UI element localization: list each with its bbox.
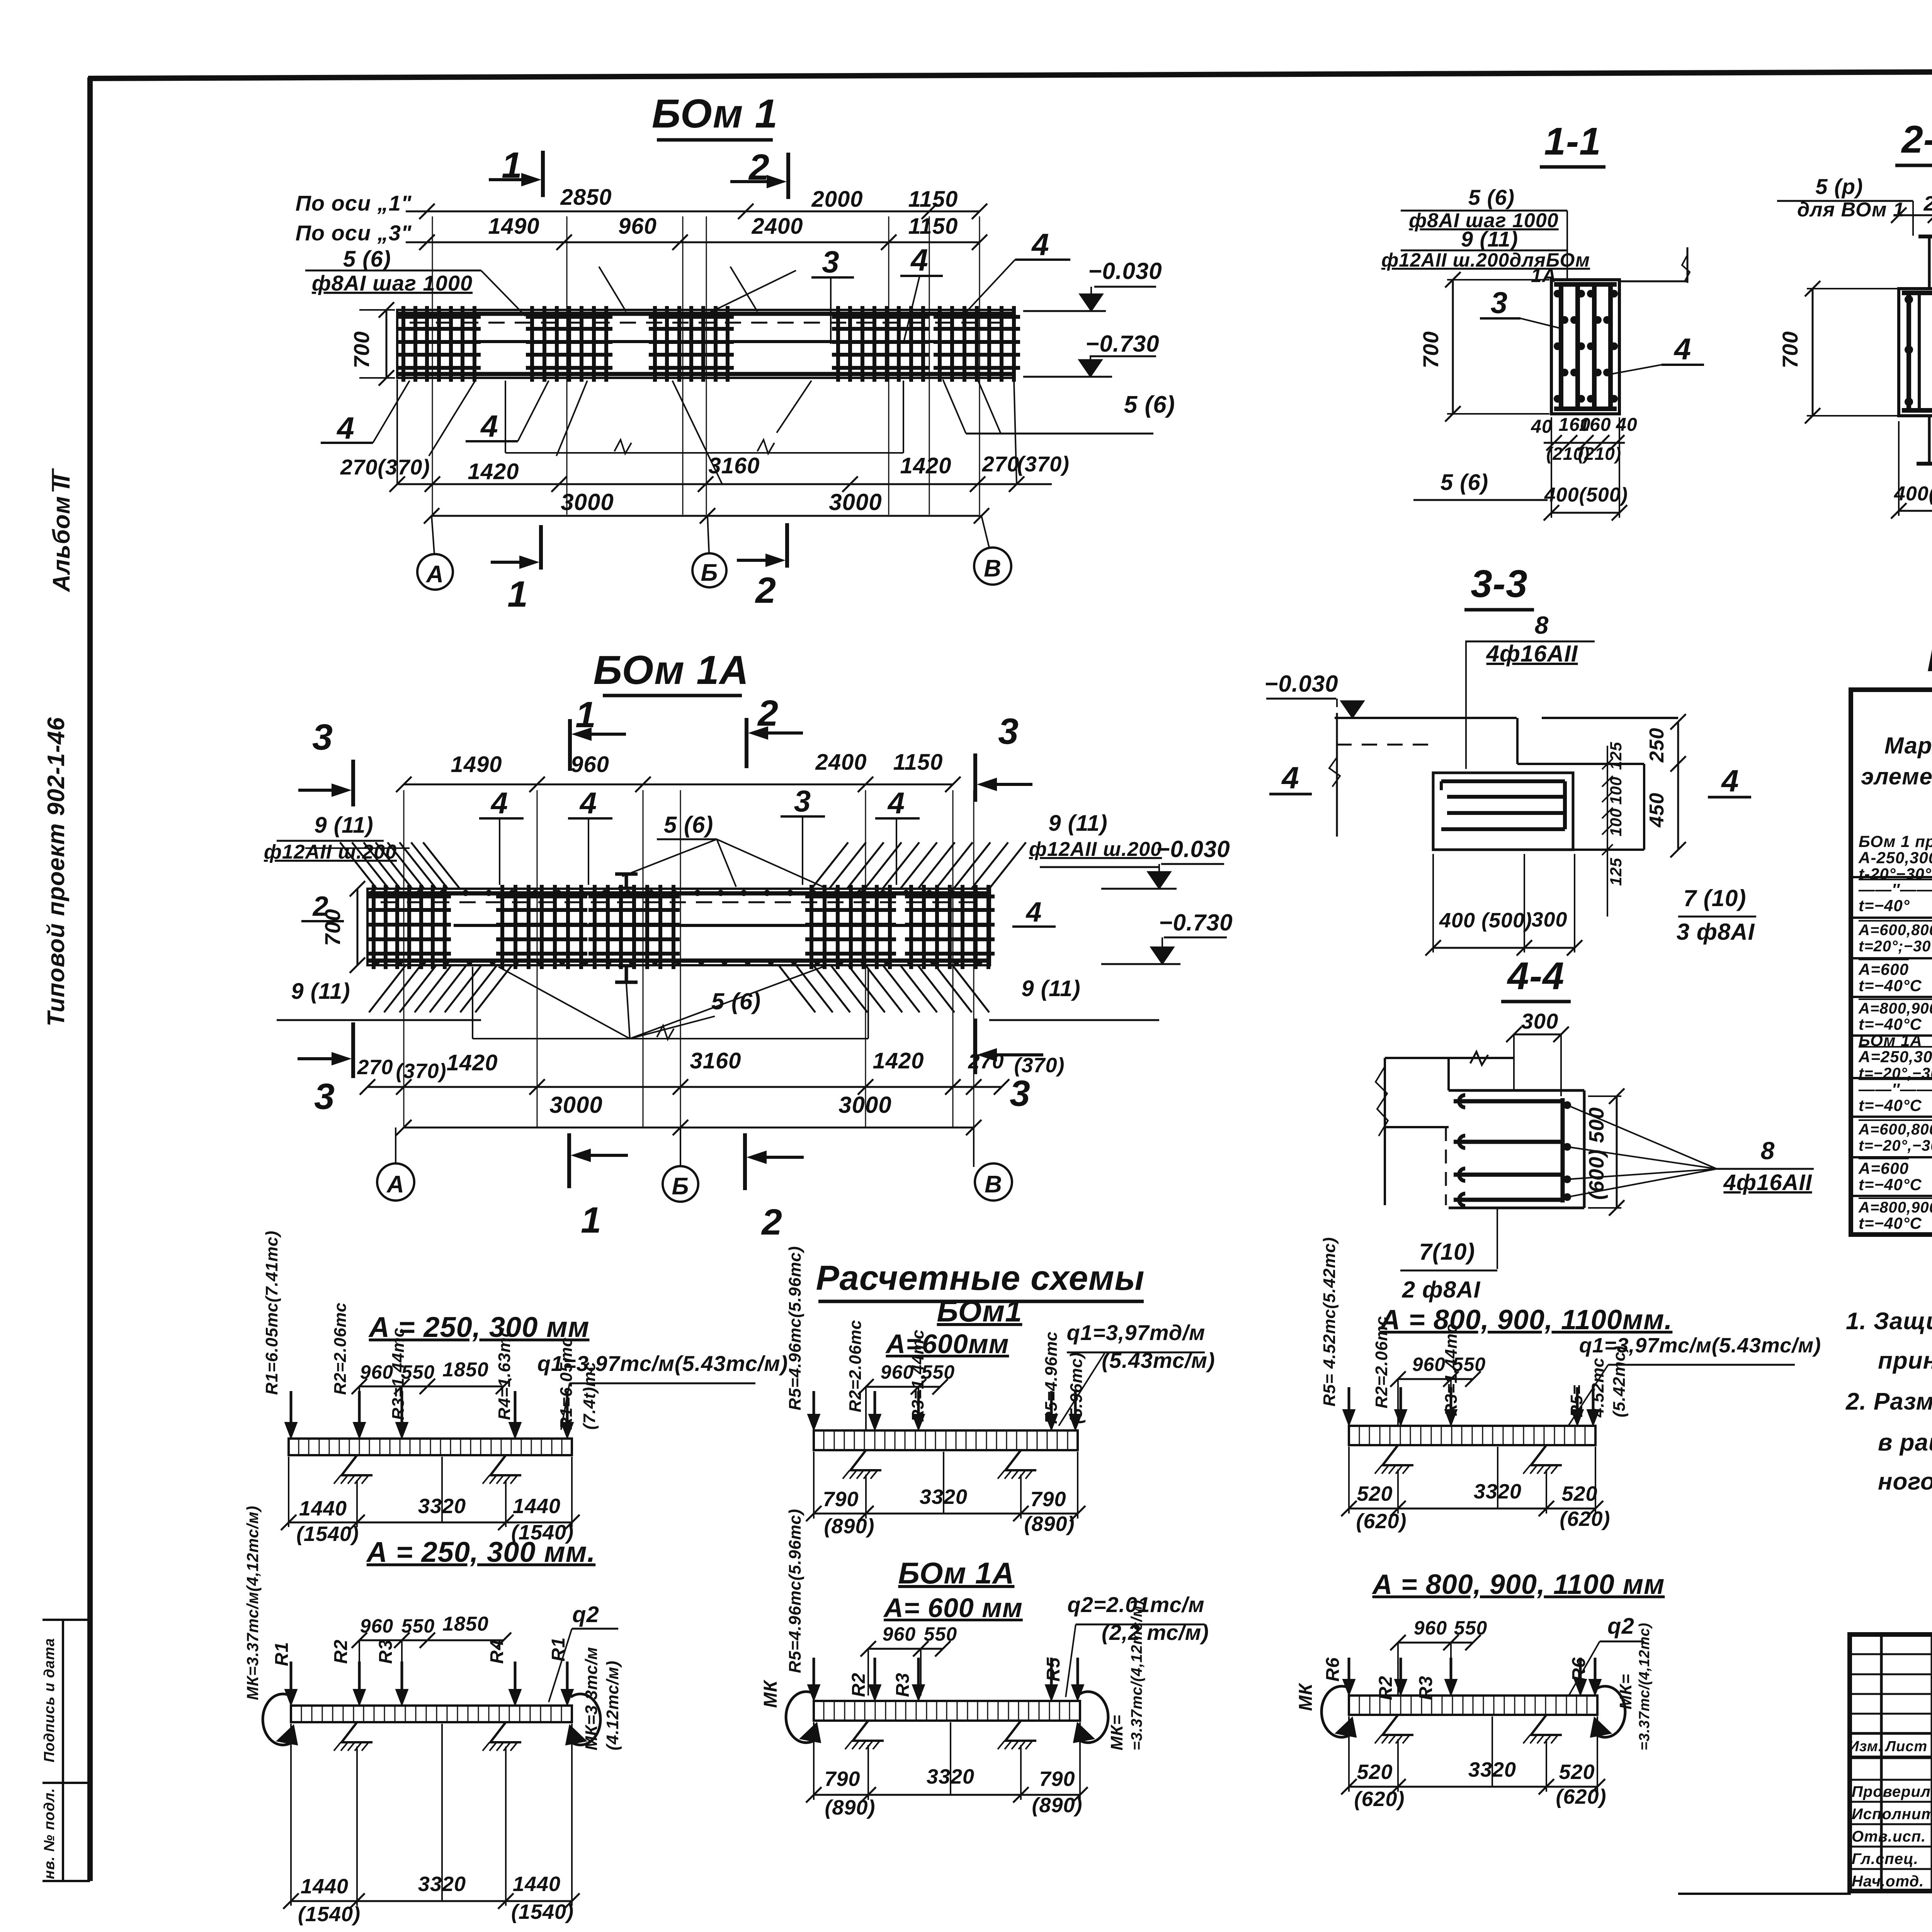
sheet frame top border: [88, 71, 1932, 78]
svg-text:−0.030: −0.030: [1088, 258, 1162, 284]
T anchor mid top beam1А: [625, 874, 628, 889]
svg-text:1150: 1150: [908, 214, 958, 239]
svg-text:R2=2.06тс: R2=2.06тс: [331, 1302, 350, 1395]
svg-text:3 ф8АI: 3 ф8АI: [1677, 919, 1755, 945]
svg-text:ф12АII ш.200дляБОм: ф12АII ш.200дляБОм: [1381, 249, 1590, 271]
svg-text:q2: q2: [1607, 1614, 1634, 1639]
beam БОм1 body outline: [397, 310, 1014, 378]
scheme D5 dims 960 550: [1398, 1378, 1473, 1380]
svg-text:R3: R3: [376, 1639, 396, 1664]
axis circle А beam1: [417, 554, 453, 590]
svg-text:Нач.отд.: Нач.отд.: [1852, 1873, 1924, 1890]
svg-text:960: 960: [883, 1623, 916, 1645]
svg-text:2-2: 2-2: [1901, 118, 1932, 161]
inclined bars hatch above-right beam1А: [811, 842, 848, 889]
svg-text:R3: R3: [893, 1673, 913, 1697]
svg-text:(620): (620): [1556, 1785, 1606, 1808]
scheme D3 support right: [1005, 1721, 1036, 1741]
svg-text:R6: R6: [1569, 1657, 1589, 1682]
svg-text:1490: 1490: [451, 752, 502, 777]
svg-text:1150: 1150: [893, 750, 943, 775]
svg-text:520: 520: [1561, 1482, 1597, 1505]
leader line left hatch: [305, 847, 410, 849]
dimension 700 beam height: [386, 310, 388, 378]
svg-text:960: 960: [1414, 1617, 1447, 1639]
svg-text:790: 790: [824, 1767, 860, 1791]
svg-text:R1=6.05тс(7.41тс): R1=6.05тс(7.41тс): [262, 1230, 281, 1395]
svg-text:4: 4: [887, 786, 905, 820]
svg-text:100: 100: [1607, 776, 1625, 804]
svg-text:t=−40°: t=−40°: [1859, 896, 1910, 915]
svg-text:260: 260: [1923, 192, 1932, 215]
svg-text:1420: 1420: [468, 459, 519, 484]
scheme D4 support left: [342, 1722, 372, 1742]
svg-text:2000: 2000: [811, 187, 863, 212]
bottom leader bracket beam1А: [472, 967, 473, 1039]
svg-text:МК=: МК=: [1107, 1715, 1126, 1750]
svg-text:400(500): 400(500): [1544, 484, 1628, 506]
svg-text:160: 160: [1579, 415, 1611, 435]
svg-text:Отв.исп.: Отв.исп.: [1852, 1828, 1926, 1845]
svg-text:270: 270: [982, 452, 1019, 476]
svg-text:4: 4: [1031, 227, 1049, 262]
svg-text:9 (11): 9 (11): [1021, 976, 1080, 1001]
scheme D3 dims 960 550: [868, 1648, 943, 1650]
scheme D3 moment arc right: [1077, 1692, 1108, 1743]
scheme D5 load arrows: [1348, 1387, 1350, 1423]
svg-text:2: 2: [761, 1202, 782, 1243]
svg-text:А = 800, 900, 1100мм.: А = 800, 900, 1100мм.: [1379, 1304, 1673, 1335]
svg-text:2850: 2850: [560, 185, 612, 210]
scheme D6 support left: [1383, 1715, 1413, 1735]
svg-text:(4.12тс/м): (4.12тс/м): [603, 1660, 622, 1750]
svg-text:(620): (620): [1356, 1510, 1406, 1533]
svg-text:1490: 1490: [488, 214, 539, 239]
title block name rows: [1850, 1779, 1932, 1781]
section 3-3 step outline: [1516, 718, 1519, 764]
svg-text:−0.730: −0.730: [1085, 331, 1159, 357]
beam БОм1А mesh zone 4: [810, 885, 813, 969]
svg-text:t=−40°С: t=−40°С: [1859, 1214, 1922, 1232]
svg-text:4: 4: [1025, 897, 1042, 928]
svg-text:(7.4t)тс: (7.4t)тс: [580, 1362, 599, 1430]
svg-text:1850: 1850: [442, 1359, 489, 1381]
scheme D6 beam bar: [1349, 1696, 1597, 1715]
svg-text:1. Защитный слой бетона до: 1. Защитный слой бетона до рабочей армат…: [1846, 1308, 1932, 1335]
svg-text:960: 960: [360, 1615, 393, 1637]
svg-text:t=20°;−30°С: t=20°;−30°С: [1859, 938, 1932, 955]
svg-text:125: 125: [1607, 742, 1625, 770]
svg-text:R5=4.96тс(5.96тс): R5=4.96тс(5.96тс): [786, 1509, 804, 1673]
svg-text:4: 4: [1281, 760, 1299, 795]
svg-text:Расчетные схемы: Расчетные схемы: [816, 1259, 1145, 1298]
svg-text:R5=: R5=: [1567, 1384, 1586, 1417]
beam БОм1 stirrup mesh zone 3: [653, 306, 657, 382]
svg-text:t=−40°С: t=−40°С: [1859, 1175, 1922, 1194]
svg-text:БОм 1А: БОм 1А: [594, 648, 749, 693]
dimension 700 section 1-1: [1452, 280, 1454, 414]
svg-text:——″——: ——″——: [1858, 880, 1932, 898]
section cut mark 1 bottom: [539, 525, 543, 570]
scheme D6 moment arc right: [1594, 1686, 1625, 1737]
svg-text:1: 1: [507, 574, 528, 615]
svg-text:Подпись и дата: Подпись и дата: [41, 1638, 58, 1762]
svg-text:9 (11): 9 (11): [291, 979, 350, 1004]
svg-text:R6: R6: [1323, 1657, 1343, 1682]
steel pipe bottom section 2-2: [1928, 416, 1931, 462]
svg-text:По оси „1": По оси „1": [296, 191, 412, 215]
svg-text:(370): (370): [1014, 1054, 1065, 1077]
svg-text:3: 3: [822, 245, 840, 279]
svg-text:3: 3: [1491, 286, 1508, 320]
svg-text:(890): (890): [1024, 1512, 1075, 1536]
svg-text:790: 790: [823, 1488, 859, 1511]
dimension 700 section 2-2: [1812, 289, 1814, 416]
steel pipe top section 2-2: [1928, 238, 1931, 289]
svg-text:300: 300: [1521, 1009, 1558, 1033]
scheme D2 beam bar: [814, 1430, 1078, 1450]
svg-text:520: 520: [1559, 1760, 1595, 1784]
svg-text:(890): (890): [824, 1515, 874, 1538]
svg-text:1440: 1440: [513, 1872, 561, 1896]
margin mini table: [62, 1620, 64, 1881]
svg-text:Альбом II: Альбом II: [48, 474, 75, 593]
svg-text:Б: Б: [672, 1173, 689, 1200]
dimension 400(500) section 2-2: [1899, 510, 1932, 512]
svg-text:R4: R4: [487, 1639, 507, 1664]
svg-text:4: 4: [480, 409, 498, 443]
svg-text:7 (10): 7 (10): [1684, 885, 1747, 911]
svg-text:А=600: А=600: [1858, 960, 1909, 978]
svg-text:3: 3: [1010, 1073, 1031, 1114]
svg-text:элемента: элемента: [1861, 764, 1932, 789]
section 2-2 rebars: [1906, 294, 1911, 410]
scheme D4 beam bar: [291, 1706, 572, 1722]
svg-text:R1=6.05тс: R1=6.05тс: [557, 1337, 576, 1430]
section 1-1 bottom bar: [1554, 406, 1617, 411]
section 3-3 left wall line: [1336, 713, 1338, 837]
svg-text:(5.96тс): (5.96тс): [1067, 1352, 1086, 1424]
beam БОм1А middle rebar: [454, 924, 990, 927]
table outer border: [1851, 690, 1932, 1235]
section 3-3 dashed line: [1336, 744, 1430, 746]
svg-text:Б: Б: [701, 560, 718, 586]
section 3-3 bottom line: [1433, 849, 1644, 851]
svg-text:МК: МК: [760, 1679, 781, 1708]
svg-text:для ВОм 1: для ВОм 1: [1797, 199, 1905, 221]
beam БОм1А mesh zone 2: [500, 885, 504, 969]
svg-text:270: 270: [357, 1056, 393, 1079]
scheme D5 support left: [1383, 1445, 1413, 1465]
svg-text:q1=3,97тд/м: q1=3,97тд/м: [1067, 1320, 1206, 1345]
svg-text:R1: R1: [272, 1642, 292, 1666]
svg-text:5 (6): 5 (6): [664, 812, 713, 838]
dimension 40 160 160 40 section 1-1: [1544, 442, 1625, 444]
svg-text:−0.030: −0.030: [1156, 836, 1230, 862]
scheme D1 dims 960 550 1850: [359, 1386, 503, 1388]
beam БОм1А top chord rebar: [367, 891, 990, 896]
title block outer border: [1850, 1634, 1932, 1891]
beam БОм1А body outline: [367, 889, 990, 965]
dashed line section 4-4: [1445, 1127, 1447, 1205]
svg-text:t=−20°,−30°С: t=−20°,−30°С: [1859, 1065, 1932, 1082]
svg-text:(1540): (1540): [298, 1903, 361, 1926]
beam БОм1А mesh zone 3: [593, 885, 597, 969]
scheme D2 load arrows: [813, 1391, 815, 1427]
svg-text:ф8АI шаг 1000: ф8АI шаг 1000: [312, 271, 473, 295]
scheme D3 moment arc left: [786, 1692, 818, 1743]
section cut mark 2 top: [786, 153, 790, 199]
section 2-2 top bar: [1902, 291, 1932, 295]
svg-text:4: 4: [1673, 332, 1691, 366]
dimension row 270 1420 3160 1420 270 beam1А: [367, 1086, 1002, 1088]
svg-text:(210): (210): [1578, 444, 1621, 464]
section cut mark 2 bottom: [785, 523, 789, 568]
svg-text:R3=1.44тс: R3=1.44тс: [1442, 1323, 1461, 1416]
svg-text:3: 3: [314, 1076, 335, 1117]
scheme D6 load arrows: [1348, 1658, 1350, 1692]
svg-text:А= 600 мм: А= 600 мм: [883, 1593, 1023, 1623]
dimension 250 450 outer column section 3-3: [1677, 722, 1679, 850]
svg-text:5 (6): 5 (6): [1440, 470, 1488, 495]
svg-text:принят − 20 мм.: принят − 20 мм.: [1878, 1347, 1932, 1374]
svg-text:8: 8: [1761, 1137, 1775, 1165]
scheme D4 moment arc right: [569, 1694, 600, 1745]
sheet frame left border: [87, 77, 93, 1881]
section cut mark 1 top beam1А: [568, 719, 572, 771]
section 3-3 hairpin bars: [1441, 779, 1565, 783]
svg-text:2: 2: [757, 693, 779, 734]
svg-text:А=250,300: А=250,300: [1858, 1048, 1932, 1066]
svg-text:t=−40°С: t=−40°С: [1859, 976, 1922, 995]
dimension 400(500) section 1-1: [1551, 512, 1619, 514]
svg-text:7(10): 7(10): [1419, 1239, 1475, 1265]
svg-text:(5.42тс): (5.42тс): [1610, 1345, 1629, 1417]
scheme D5 support right: [1531, 1445, 1562, 1465]
svg-text:(620): (620): [1354, 1787, 1405, 1811]
T anchor mid bottom beam1А: [625, 965, 628, 982]
svg-text:БОм 1А: БОм 1А: [898, 1556, 1015, 1590]
title block left revision rows: [1850, 1653, 1932, 1655]
axis circle Б beam1А: [663, 1166, 698, 1202]
scheme D1 support right: [490, 1455, 521, 1475]
svg-text:4: 4: [1721, 764, 1739, 798]
svg-text:А-250,300: А-250,300: [1858, 849, 1932, 867]
svg-text:700: 700: [1418, 331, 1443, 368]
svg-text:1: 1: [581, 1200, 602, 1241]
scheme D4 moment arc left: [263, 1694, 294, 1745]
svg-text:−0.030: −0.030: [1264, 671, 1338, 697]
section cut mark 2 bottom beam1А: [743, 1133, 747, 1190]
title block header row Изм Лист №докум Подпись Дата: [1850, 1756, 1932, 1759]
svg-text:А: А: [425, 561, 444, 588]
svg-text:4: 4: [579, 786, 597, 820]
scheme D1 bottom dims 1440 3320 1440: [289, 1522, 572, 1524]
svg-text:2: 2: [748, 147, 770, 188]
svg-text:3160: 3160: [690, 1048, 741, 1073]
svg-text:1: 1: [575, 694, 596, 735]
svg-text:=3.37тс/(4,12тс): =3.37тс/(4,12тс): [1636, 1622, 1653, 1750]
svg-text:По оси „3": По оси „3": [296, 221, 412, 245]
svg-text:3160: 3160: [708, 453, 760, 478]
axis circle Б beam1: [692, 553, 726, 587]
svg-text:4ф16АII: 4ф16АII: [1486, 641, 1578, 667]
beam БОм1 upper dashed bar: [410, 322, 1001, 324]
beam outline section 4-4: [1449, 1089, 1584, 1092]
scheme D2 support left: [850, 1450, 881, 1470]
svg-text:нв. № подл.: нв. № подл.: [41, 1788, 58, 1879]
beam БОм1А dashed bar: [381, 901, 978, 903]
beam БОм1 leader diagonals top: [599, 267, 626, 311]
svg-text:(1540): (1540): [511, 1900, 574, 1923]
svg-text:9 (11): 9 (11): [314, 813, 373, 838]
construction axis verticals beam1А: [403, 790, 405, 1128]
inclined bars hatch below-left beam1А: [369, 965, 406, 1012]
svg-text:790: 790: [1030, 1488, 1066, 1511]
svg-text:270(370): 270(370): [340, 455, 430, 479]
svg-text:Марка: Марка: [1884, 733, 1932, 759]
scheme D6 moment arc left: [1321, 1686, 1353, 1737]
svg-text:1440: 1440: [299, 1497, 347, 1520]
svg-text:2. Размеры в скобках даны: 2. Размеры в скобках даны для условий ст…: [1845, 1388, 1932, 1415]
svg-text:550: 550: [1454, 1617, 1487, 1639]
svg-text:3: 3: [998, 711, 1019, 752]
svg-text:Типовой проект 902-1-46: Типовой проект 902-1-46: [43, 717, 70, 1026]
scheme D6 bottom dims 520 3320 520: [1349, 1786, 1597, 1788]
svg-text:R5=4.96тс: R5=4.96тс: [1042, 1331, 1061, 1424]
svg-text:1-1: 1-1: [1544, 120, 1601, 163]
svg-text:700: 700: [1778, 331, 1802, 368]
svg-text:В: В: [985, 1171, 1002, 1198]
scheme D5 beam bar: [1349, 1426, 1595, 1445]
beam БОм1 leader diagonals bottom: [429, 381, 475, 456]
svg-text:Проверил: Проверил: [1852, 1783, 1931, 1800]
svg-text:В: В: [984, 555, 1002, 582]
dimension 400(500) 300 section 3-3: [1433, 947, 1575, 949]
column section 2-2 outline: [1899, 289, 1932, 416]
svg-text:1440: 1440: [513, 1495, 561, 1518]
svg-text:1150: 1150: [908, 187, 958, 212]
dimension row 3000 3000: [432, 515, 981, 517]
section 4-4 hairpin bars: [1454, 1099, 1563, 1104]
svg-text:1: 1: [502, 145, 522, 186]
svg-text:3000: 3000: [549, 1092, 602, 1118]
leader bracket under beam1: [505, 381, 506, 453]
svg-text:400 (500): 400 (500): [1439, 909, 1532, 932]
extension verticals to lower dims: [396, 379, 398, 484]
svg-text:4-4: 4-4: [1507, 954, 1565, 998]
scheme D2 dims 960 550: [866, 1386, 940, 1388]
section 1-1 top-right break line: [1619, 281, 1687, 282]
svg-text:(370): (370): [1017, 452, 1070, 476]
svg-text:3000: 3000: [838, 1092, 891, 1118]
scheme D3 support left: [853, 1721, 884, 1741]
inclined bars hatch below-right beam1А: [779, 965, 815, 1012]
svg-text:3000: 3000: [829, 489, 882, 515]
svg-text:R5: R5: [1043, 1657, 1064, 1682]
dimension 125 100 100 125 inner column section 3-3: [1607, 746, 1608, 900]
svg-text:А = 800, 900, 1100 мм: А = 800, 900, 1100 мм: [1372, 1569, 1665, 1600]
svg-text:БОм 1 при: БОм 1 при: [1859, 832, 1932, 850]
svg-text:Изм.: Изм.: [1849, 1738, 1883, 1755]
svg-text:1420: 1420: [872, 1048, 924, 1073]
section cut mark 3 top-left beam1А: [351, 760, 355, 806]
svg-text:4: 4: [490, 786, 508, 820]
svg-text:520: 520: [1357, 1760, 1393, 1784]
svg-text:R2=2.06тс: R2=2.06тс: [1372, 1316, 1391, 1408]
section 3-3 slab top line: [1335, 717, 1517, 719]
construction axis verticals beam1: [432, 216, 433, 515]
svg-text:R5= 4.52тс(5.42тс): R5= 4.52тс(5.42тс): [1320, 1237, 1339, 1406]
svg-text:2400: 2400: [751, 214, 803, 239]
section cut mark 1 bottom beam1А: [567, 1133, 571, 1188]
scheme D6 support right: [1531, 1715, 1562, 1735]
scheme D4 bottom dims 1440 3320 1440: [291, 1900, 572, 1902]
svg-text:БОм1: БОм1: [937, 1294, 1022, 1328]
svg-text:270: 270: [968, 1050, 1004, 1073]
section cut mark 3 top-right beam1А: [973, 753, 977, 802]
svg-text:МК=3.37тс/м(4,12тс/м): МК=3.37тс/м(4,12тс/м): [243, 1505, 262, 1700]
svg-text:R2: R2: [331, 1639, 351, 1664]
scheme D4 support right: [490, 1722, 521, 1742]
axis circle А beam1А: [377, 1163, 414, 1201]
svg-text:1850: 1850: [442, 1613, 489, 1635]
svg-text:ф12АII ш.200: ф12АII ш.200: [1029, 838, 1162, 861]
svg-text:960: 960: [618, 214, 657, 239]
axis circle В beam1: [974, 548, 1011, 585]
svg-text:790: 790: [1039, 1767, 1075, 1791]
svg-text:БОм 1: БОм 1: [652, 91, 778, 136]
svg-text:300: 300: [1531, 908, 1567, 931]
scheme D1 load arrows R1 R2 R3 R4 R1: [290, 1391, 293, 1435]
svg-text:БОм 1А: БОм 1А: [1859, 1031, 1922, 1049]
scheme D3 load arrows: [813, 1658, 815, 1698]
svg-text:R2: R2: [849, 1673, 869, 1697]
svg-text:520: 520: [1357, 1482, 1393, 1505]
beam БОм1А bottom chord rebar: [367, 959, 990, 963]
beam БОм1 bottom chord rebar: [397, 372, 1014, 376]
svg-text:Исполнит.: Исполнит.: [1852, 1806, 1932, 1823]
svg-text:R3=1.44тс: R3=1.44тс: [389, 1327, 408, 1420]
svg-text:960: 960: [1412, 1354, 1446, 1375]
svg-text:4.52тс: 4.52тс: [1588, 1357, 1607, 1418]
wall break squiggles section 4-4: [1376, 1066, 1388, 1136]
label 7(10) 2ф8АI section 4-4: [1497, 1208, 1498, 1269]
svg-text:2: 2: [755, 570, 776, 611]
svg-text:700: 700: [320, 909, 345, 946]
svg-text:3: 3: [794, 784, 811, 818]
svg-text:2400: 2400: [815, 750, 867, 775]
beam БОм1 stirrup mesh zone 2: [530, 306, 534, 382]
svg-text:R5=4.96тс(5.96тс): R5=4.96тс(5.96тс): [786, 1246, 804, 1410]
svg-text:R1: R1: [548, 1637, 569, 1662]
title block left revision grid columns: [1880, 1634, 1883, 1891]
section cut mark 2 top beam1А: [745, 718, 748, 768]
svg-text:1420: 1420: [446, 1050, 498, 1075]
scheme D4 dims 960 550 1850: [359, 1639, 503, 1641]
dimension 700 beam1А height: [357, 889, 359, 965]
scheme D4 load arrows: [290, 1662, 293, 1702]
svg-text:Гл.спец.: Гл.спец.: [1852, 1850, 1918, 1867]
column section 1-1 outline: [1551, 280, 1619, 414]
section cut mark 3 bottom-right beam1А: [973, 1019, 977, 1074]
svg-text:ного воздуха − 40°С.: ного воздуха − 40°С.: [1878, 1468, 1932, 1495]
section 2-2 bottom bar: [1902, 408, 1932, 413]
inclined bars hatch above-left beam1А: [340, 842, 377, 889]
section 1-1 top bar: [1554, 282, 1617, 287]
svg-text:А = 250, 300 мм.: А = 250, 300 мм.: [366, 1536, 595, 1568]
svg-text:R2=2.06тс: R2=2.06тс: [846, 1320, 865, 1412]
